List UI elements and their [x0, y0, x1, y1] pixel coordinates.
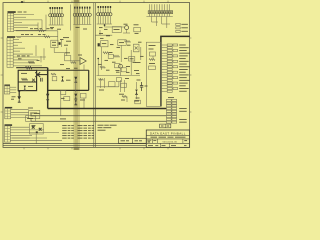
connector CN4 [5, 108, 11, 118]
diode D7 [61, 76, 64, 81]
diode D6 [134, 44, 140, 52]
regulator box U1 [146, 42, 161, 106]
resistor R6 [114, 55, 120, 57]
wire vj2 [120, 45, 122, 62]
cluster K14 [97, 78, 122, 87]
box U9 [26, 116, 36, 122]
wire v2 [83, 65, 85, 71]
marks U2 [52, 42, 56, 46]
junction X2 [32, 126, 35, 129]
cluster K11 [135, 98, 141, 104]
box U11 [108, 52, 113, 58]
diode D4 [74, 77, 77, 83]
labels row B [21, 33, 46, 36]
cluster K12 [51, 73, 71, 80]
svg-text:DATA EAST PINBALL: DATA EAST PINBALL [150, 131, 186, 135]
bus under Q14-Q19 [104, 24, 125, 27]
box U5 [112, 27, 121, 33]
transistor Q21 [119, 64, 123, 75]
thick wire top [16, 67, 48, 69]
cluster K7 [119, 78, 129, 95]
connector CN5 header [5, 124, 13, 126]
wire vj1 [101, 47, 103, 70]
marks U10 [32, 125, 38, 133]
page split line right [94, 3, 96, 148]
next-assy box [119, 138, 147, 143]
wires from CN4 [11, 110, 29, 118]
wires from CN1 [14, 15, 46, 31]
connector CN1 header [8, 11, 27, 13]
pin labels CN6 [176, 23, 188, 32]
connector CN3 [4, 86, 9, 94]
cluster K1 [59, 39, 64, 47]
connector CN4 header [5, 107, 12, 109]
labels in BR1 [21, 73, 33, 87]
cluster K5 [115, 64, 127, 72]
part list text right [78, 125, 95, 138]
wire vj5 [140, 47, 142, 60]
box U10 [30, 124, 44, 134]
wire x75 down [75, 80, 77, 92]
transistor bank Q7-Q13 [73, 7, 91, 25]
cluster K10 [121, 96, 127, 102]
wires from CN6 [152, 17, 171, 29]
resistor R7 [125, 41, 131, 43]
box U8 [29, 110, 40, 118]
page split line left [93, 3, 95, 148]
thick wire bottom [48, 89, 89, 91]
title block [146, 130, 189, 147]
diode D5 [74, 94, 77, 100]
border zone ticks [1, 1, 192, 150]
wire row D [97, 75, 141, 77]
frame line 2 [3, 145, 146, 147]
label CN4 [28, 107, 33, 110]
diode D2 [46, 94, 49, 100]
junction X3 [39, 128, 42, 131]
thick inner wire [18, 81, 36, 83]
junction blob [18, 90, 20, 92]
wire v1 [66, 48, 68, 56]
cluster K6 [99, 78, 116, 90]
box U7 [129, 57, 135, 61]
wire vertical x70 [70, 5, 72, 31]
connector CN5 [5, 126, 11, 142]
revision box [160, 124, 171, 128]
resistor R1 [26, 67, 33, 69]
bridge box BR1 [18, 70, 36, 90]
labels row A [30, 27, 53, 30]
capacitor C2 [140, 82, 148, 91]
labels under Q banks [50, 27, 108, 30]
box U6 [118, 40, 126, 46]
wire drop x57 [57, 31, 59, 46]
label bus2 [34, 113, 66, 119]
labels K5 [126, 62, 141, 71]
connector CN1 [8, 13, 14, 31]
cluster K4 [98, 41, 108, 47]
resistor R8 [100, 66, 106, 68]
resistor R9 [22, 78, 28, 80]
thick feed wire [161, 36, 190, 106]
junction X1 [35, 72, 40, 77]
cluster K9 [99, 33, 110, 36]
crease shadow band [73, 0, 80, 150]
wire x60 down [60, 90, 62, 115]
wires from CN5 [10, 127, 62, 141]
connector CN2 header [7, 36, 21, 38]
wire row C [95, 30, 112, 35]
heavy bus [48, 108, 167, 110]
wire to U10 [12, 137, 30, 139]
connector CN6 [146, 4, 172, 16]
diode D1 [23, 86, 26, 91]
wire U3-U4 [71, 60, 80, 62]
connector CN2 [7, 38, 13, 68]
wire row A [16, 30, 58, 32]
thick wire link [37, 74, 48, 76]
capacitor C1 [41, 78, 43, 82]
wire vj4 [97, 58, 99, 76]
thick wire right [37, 69, 89, 71]
diode D3 [18, 96, 21, 102]
junction X4 [32, 79, 35, 82]
diode D9 [135, 90, 138, 95]
components in U1 [149, 45, 156, 69]
op-amp U4 [80, 58, 86, 65]
transistor bank Q1-Q6 [49, 7, 64, 25]
wire vj3 [130, 50, 132, 75]
cluster K2 [61, 91, 70, 101]
cluster K8 [134, 80, 141, 102]
scatter labels right-mid [98, 38, 144, 74]
resistor R5 [103, 52, 109, 54]
resistor R2 [38, 30, 44, 32]
diode D8 [74, 100, 77, 105]
thick wire drop [88, 70, 90, 90]
labels lower-mid [60, 64, 78, 69]
pin label column CN8 [166, 97, 186, 123]
wires from CN3 [10, 87, 16, 99]
IC box U3 [65, 56, 71, 61]
resistor R3 [44, 36, 50, 38]
cluster K13 [80, 93, 86, 108]
thick wire stub [18, 91, 20, 97]
labels mid [63, 37, 71, 46]
IC box U2 [51, 40, 58, 47]
cluster K3 [134, 24, 141, 34]
wire U2-U3 [54, 48, 64, 56]
frame line 1 [3, 143, 146, 145]
resistor R4 [71, 62, 77, 64]
labels U3 [65, 52, 82, 55]
part list text left [62, 125, 74, 138]
wire U10 down [35, 134, 37, 144]
crease nub top [74, 0, 79, 3]
wires from CN2 [13, 39, 46, 66]
svg-text:520-5012-00: 520-5012-00 [162, 141, 177, 143]
wire row B [16, 36, 58, 38]
notes text [98, 125, 117, 131]
bus wire 2 [31, 114, 166, 116]
thick wire down [47, 68, 49, 109]
pin label column CN7 [161, 44, 190, 92]
crease nub bottom [74, 147, 79, 150]
bus wire 3 [31, 119, 166, 121]
border frame [3, 3, 190, 148]
paper background [0, 0, 192, 150]
transistor bank Q14-Q19 [97, 6, 112, 24]
connector CN3 header [4, 85, 10, 86]
transistor Q20 [123, 24, 130, 33]
